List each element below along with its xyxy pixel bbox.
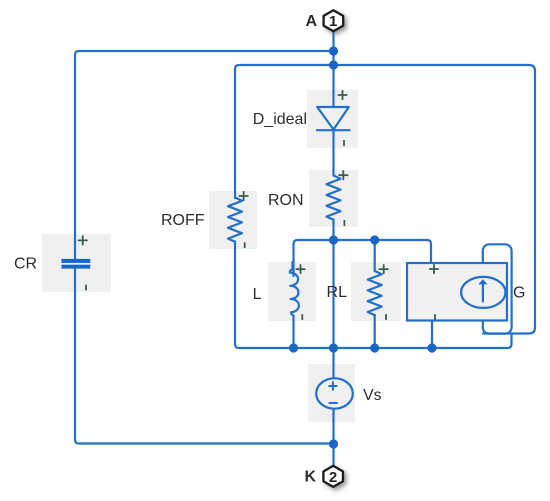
- plus L: [296, 265, 304, 273]
- inductor L coil: [290, 262, 299, 316]
- box RON: [309, 170, 358, 227]
- wire diode to RON: [332, 130, 334, 175]
- wire top-left branch: y=51 rail, left side x=75, bottom y=443.5 rail: [75, 51, 334, 260]
- capacitor CR plates: [62, 259, 91, 263]
- node L bottom: [289, 343, 298, 352]
- port hexagon 2 (K): [323, 466, 343, 487]
- node RON-rail: [329, 235, 338, 244]
- wire middle vertical rail-to-rail: [332, 240, 334, 348]
- resistor ROFF zigzag: [228, 198, 242, 242]
- Vs polarity (blue, inside circle): [329, 382, 337, 403]
- wire main vertical A to diode: [332, 51, 334, 107]
- minus RON: [343, 221, 345, 225]
- diode D_ideal symbol: [317, 107, 349, 130]
- svg-text:ROFF: ROFF: [161, 212, 205, 229]
- node RL-rail top: [370, 235, 379, 244]
- box ROFF: [209, 191, 257, 249]
- wire G block bottom: [431, 321, 433, 349]
- svg-text:1: 1: [329, 13, 337, 30]
- plus RON: [339, 171, 347, 179]
- node RL bottom: [370, 343, 379, 352]
- resistor RON zigzag: [327, 176, 341, 220]
- resistor RL zigzag: [368, 271, 382, 315]
- wire middle rail with corners to L and G: [294, 240, 432, 276]
- current source arrow shaft: [482, 284, 484, 302]
- wire left branch below CR: [75, 268, 334, 444]
- plus G: [430, 265, 438, 273]
- G block frame: [407, 263, 507, 321]
- node junction at y=65: [329, 60, 338, 69]
- node K junction: [329, 439, 338, 448]
- minus ROFF: [244, 243, 246, 247]
- voltage source Vs circle: [316, 378, 353, 408]
- svg-text:Vs: Vs: [363, 387, 382, 404]
- box L: [268, 262, 316, 321]
- svg-text:D_ideal: D_ideal: [253, 111, 307, 128]
- wire RL top: [374, 240, 376, 271]
- minus RL: [385, 315, 387, 319]
- wire G feedback loop rounded rect: [483, 244, 512, 333]
- wire RON to middle rail: [332, 219, 334, 240]
- wire Vs top: [332, 348, 334, 379]
- plus ROFF: [239, 192, 247, 200]
- node mid bottom: [329, 343, 338, 352]
- minus Vs: [329, 402, 337, 404]
- port hexagon 1 (A): [324, 10, 344, 31]
- svg-text:L: L: [253, 286, 262, 303]
- svg-text:RON: RON: [268, 192, 304, 209]
- current source arrowhead: [478, 279, 487, 284]
- svg-text:A: A: [305, 13, 317, 30]
- minus D_ideal: [343, 141, 345, 145]
- wire RL bottom: [374, 315, 376, 348]
- plus CR: [79, 236, 87, 244]
- box CR: [42, 234, 111, 292]
- svg-text:CR: CR: [14, 256, 37, 273]
- minus G: [434, 315, 436, 319]
- svg-text:RL: RL: [327, 284, 348, 301]
- wire K port: [332, 444, 334, 466]
- wire L bottom: [292, 316, 294, 348]
- wire inner box top rail right + outer right side: [334, 65, 536, 334]
- wire Vs bottom: [332, 410, 334, 445]
- current source G ellipse: [461, 277, 505, 308]
- svg-text:K: K: [304, 469, 316, 486]
- svg-text:G: G: [513, 285, 525, 302]
- minus L: [301, 315, 303, 319]
- plus D_ideal: [338, 91, 346, 99]
- plus RL: [380, 265, 388, 273]
- wire inner box top rail left + ROFF branch upper: [235, 65, 334, 198]
- plus Vs: [329, 382, 336, 389]
- wire A port to junction: [332, 31, 334, 51]
- node junction at y=51: [329, 46, 338, 55]
- box RL: [351, 262, 401, 321]
- svg-text:2: 2: [329, 469, 337, 486]
- box Vs: [308, 364, 355, 422]
- wire ROFF branch lower + bottom rail: [235, 241, 512, 348]
- box D_ideal: [307, 90, 358, 148]
- minus CR: [85, 285, 87, 289]
- node G bottom: [427, 343, 436, 352]
- junction dots: [289, 46, 437, 448]
- polarity marks (green): [79, 91, 439, 319]
